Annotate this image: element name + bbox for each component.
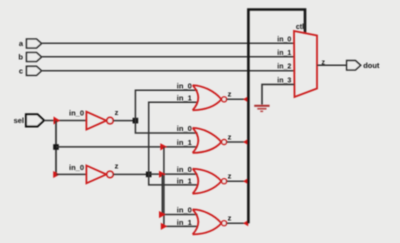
wire U4 z to bus <box>227 180 249 182</box>
svg-text:in_0: in_0 <box>69 109 84 118</box>
wire sel to U3 in_1 <box>56 146 198 148</box>
NOR gate U3b <box>177 124 232 153</box>
wire U2 z down to U4 in_1 <box>149 174 198 185</box>
junction bus tap U3a <box>243 96 248 102</box>
wire c to mux in_2 <box>42 70 295 72</box>
wire U5 z to bus <box>227 222 249 224</box>
ground <box>254 105 269 112</box>
wire sel vertical drop <box>55 121 57 175</box>
output port dout <box>347 61 380 70</box>
junction sel to NOR row <box>53 144 59 150</box>
input port a <box>19 39 42 48</box>
svg-text:b: b <box>18 53 23 62</box>
svg-text:in_1: in_1 <box>177 138 192 147</box>
wire U1 z to U3 gates <box>135 90 197 133</box>
svg-text:sel: sel <box>14 116 24 125</box>
svg-text:in_0: in_0 <box>177 206 192 215</box>
junction corner to U5 in_0 <box>159 211 166 218</box>
svg-text:z: z <box>115 162 119 171</box>
svg-text:z: z <box>228 132 232 141</box>
input port b <box>18 53 41 62</box>
wire U2 z right to U4 in_0 <box>149 173 198 175</box>
svg-text:dout: dout <box>363 61 380 70</box>
svg-text:in_3: in_3 <box>277 77 291 84</box>
svg-text:in_1: in_1 <box>177 94 192 103</box>
wire b to mux in_1 <box>42 56 295 58</box>
wire U2 z up to U3 in_1 <box>149 102 198 174</box>
svg-text:z: z <box>228 214 232 223</box>
wire U2 z down to U5 in_0 <box>162 174 197 214</box>
wire U1 z output <box>113 120 135 122</box>
inverter U1 (in_0 -> z) <box>69 108 119 130</box>
input port c <box>19 66 42 75</box>
svg-text:in_1: in_1 <box>177 218 192 227</box>
junction bus tap U5 <box>243 220 248 226</box>
wire sel to inverter U2 input <box>56 173 87 175</box>
wire sel to inverter U1 input <box>44 120 87 122</box>
wire mux z to dout <box>317 64 347 66</box>
NOR gate U5 (bottom) <box>177 206 232 235</box>
junction U1 output node <box>133 118 139 124</box>
svg-text:ctl: ctl <box>296 24 304 31</box>
svg-text:in_0: in_0 <box>177 81 192 90</box>
junction corner to U5 in_1 <box>161 223 167 230</box>
wire U2 z output <box>113 173 148 175</box>
junction U2 branch down <box>159 171 166 178</box>
svg-text:in_0: in_0 <box>69 163 84 172</box>
svg-text:in_0: in_0 <box>277 36 291 43</box>
svg-text:in_0: in_0 <box>177 124 192 133</box>
NOR gate U4 <box>177 165 232 194</box>
svg-text:z: z <box>228 90 232 99</box>
wire sel down to U5 in_1 <box>164 147 198 227</box>
NOR gate U3a (top) <box>177 81 232 110</box>
junction corner sel to inverter U2 <box>53 171 60 178</box>
input port sel <box>14 114 44 126</box>
svg-text:in_1: in_1 <box>177 176 192 185</box>
junction sel branch down <box>160 143 167 150</box>
bus ctl from gate outputs to mux <box>248 10 305 224</box>
junction bus tap U3b <box>243 139 248 145</box>
svg-text:c: c <box>19 66 23 75</box>
svg-text:z: z <box>228 172 232 181</box>
svg-text:z: z <box>115 108 119 117</box>
svg-text:in_0: in_0 <box>177 165 192 174</box>
mux U6 <box>277 24 325 97</box>
wire gnd to mux in_3 <box>262 84 294 104</box>
wire a to mux in_0 <box>42 42 295 44</box>
junction U2 output node <box>146 172 152 178</box>
wire U3a z to bus <box>227 98 249 100</box>
junction bus tap U4 <box>243 178 248 184</box>
junction sel node <box>54 117 61 125</box>
wire U3b z to bus <box>227 141 249 143</box>
inverter U2 (in_0 -> z) <box>69 162 119 184</box>
svg-text:in_2: in_2 <box>277 64 291 71</box>
svg-text:in_1: in_1 <box>277 50 291 57</box>
